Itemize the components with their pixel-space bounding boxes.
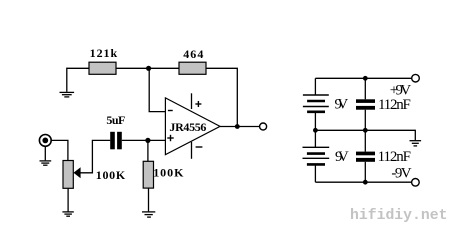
svg-text:hifidiy.net: hifidiy.net: [350, 207, 448, 224]
svg-text:464: 464: [183, 47, 203, 61]
svg-text:100K: 100K: [96, 168, 126, 182]
svg-text:100K: 100K: [153, 165, 184, 179]
svg-text:9V: 9V: [335, 149, 349, 165]
svg-text:121k: 121k: [90, 46, 118, 60]
svg-text:+9V: +9V: [390, 82, 412, 98]
svg-text:JR4556: JR4556: [169, 120, 206, 134]
svg-text:-9V: -9V: [391, 166, 411, 182]
svg-text:112nF: 112nF: [378, 97, 411, 113]
svg-text:9V: 9V: [335, 96, 349, 112]
svg-text:5uF: 5uF: [106, 113, 125, 127]
svg-text:112nF: 112nF: [378, 149, 411, 165]
